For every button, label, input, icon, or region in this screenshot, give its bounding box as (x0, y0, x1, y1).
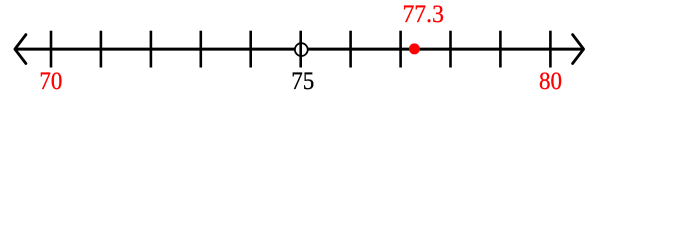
tick 78 (449, 31, 452, 68)
left arrowhead (15, 35, 26, 64)
tick 79 (499, 31, 502, 68)
tick 73 (200, 31, 203, 68)
svg-text:70: 70 (39, 68, 62, 95)
svg-text:77.3: 77.3 (402, 1, 444, 28)
tick 72 (150, 31, 153, 68)
tick 77 (399, 31, 402, 68)
number line diagram 70 to 80 with open circle at 75 and red point at 77.3 (0, 0, 700, 100)
main number line (15, 48, 584, 51)
tick 75 drawn over circle (299, 31, 302, 68)
tick 80 (549, 31, 552, 68)
tick 74 (249, 31, 252, 68)
svg-text:80: 80 (539, 68, 562, 95)
right arrowhead (573, 35, 584, 64)
open circle at 75 (295, 43, 308, 56)
tick 76 (349, 31, 352, 68)
tick 70 (50, 31, 53, 68)
svg-text:75: 75 (291, 68, 314, 95)
tick 71 (100, 31, 103, 68)
red point at 77.3 (409, 43, 420, 54)
